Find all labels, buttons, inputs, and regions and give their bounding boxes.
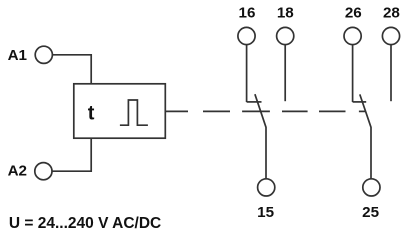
wire A2 to timer box — [44, 138, 91, 171]
terminal A1 — [35, 46, 52, 63]
wire A1 to timer box — [44, 55, 91, 84]
contact arm 25-26 — [360, 94, 371, 178]
svg-text:A1: A1 — [8, 47, 28, 64]
svg-text:16: 16 — [239, 5, 256, 22]
svg-text:15: 15 — [257, 204, 274, 221]
terminal 25 — [363, 179, 380, 196]
svg-text:U = 24...240 V AC/DC: U = 24...240 V AC/DC — [9, 215, 161, 232]
svg-text:A2: A2 — [8, 163, 27, 180]
svg-text:25: 25 — [362, 204, 379, 221]
terminal 28 — [382, 27, 399, 44]
terminal 15 — [258, 179, 275, 196]
timer function box — [74, 84, 166, 138]
pulse symbol — [120, 100, 148, 125]
wire 28 — [390, 45, 392, 102]
terminal 26 — [344, 27, 361, 44]
terminal 16 — [238, 27, 255, 44]
svg-text:t: t — [88, 102, 95, 124]
wire 18 — [284, 45, 286, 102]
dashed mechanical linkage — [165, 110, 365, 112]
contact seat 26 — [353, 101, 367, 103]
svg-text:28: 28 — [383, 5, 400, 22]
contact seat 16 — [247, 101, 262, 103]
contact arm 15-16 — [255, 94, 266, 178]
wire 16 — [246, 45, 248, 103]
terminal 18 — [277, 27, 294, 44]
terminal A2 — [35, 163, 52, 180]
wire 26 — [352, 45, 354, 103]
svg-text:26: 26 — [345, 5, 362, 22]
svg-text:18: 18 — [277, 5, 294, 22]
